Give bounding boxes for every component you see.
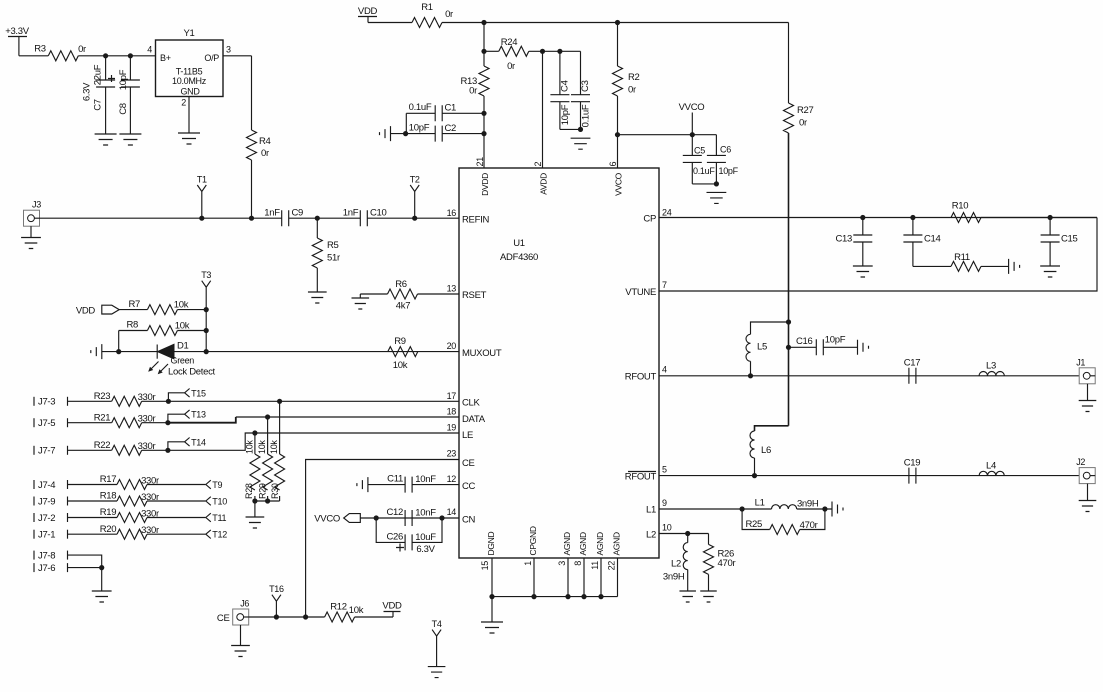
svg-text:24: 24 [662,208,672,218]
resistor R8 10k [147,326,177,336]
svg-text:U1: U1 [513,238,525,249]
node R30/CLK [277,399,282,404]
svg-text:CLK: CLK [462,398,481,409]
svg-text:5: 5 [662,465,667,475]
svg-text:6.3V: 6.3V [416,544,435,555]
svg-text:13: 13 [447,284,457,294]
wire AVDD down to pin 2 [542,51,544,168]
capacitor C3 0.1uF [580,51,582,94]
wire R19 to probe T11 [147,517,206,519]
resistor R6 4k7 [388,289,418,299]
connector J3 [24,210,40,226]
svg-text:GND: GND [180,87,200,97]
node VDD/R13 [481,20,486,25]
svg-text:VTUNE: VTUNE [625,287,656,298]
svg-text:6.3V: 6.3V [82,82,93,101]
svg-text:L2: L2 [646,530,656,541]
svg-text:T14: T14 [191,437,206,447]
svg-text:T1: T1 [197,175,207,185]
svg-text:R1: R1 [421,2,433,13]
test point T1 [199,216,204,221]
svg-text:R28: R28 [244,483,254,499]
svg-text:22uF: 22uF [93,64,104,85]
wire C10 to REFIN pin 16 [367,217,459,219]
ground (sideways, R11) [1009,259,1020,274]
svg-text:C12: C12 [386,507,403,518]
svg-text:T-11B5: T-11B5 [176,67,203,77]
resistor R13 0r [479,66,489,96]
svg-text:C17: C17 [904,358,921,369]
svg-text:3n9H: 3n9H [663,572,685,583]
connector J1 [1079,368,1095,384]
wire AGND pin 8 [583,558,585,597]
svg-text:AGND: AGND [595,532,605,556]
crystal oscillator Y1 T-11B5 10.0MHz [156,40,224,97]
capacitor C6 10pF [715,135,717,156]
capacitor C11 10nF [368,484,405,486]
svg-text:RFOUT: RFOUT [625,372,657,383]
svg-text:T11: T11 [212,513,226,523]
svg-text:10pF: 10pF [409,123,430,134]
ground J2 [1087,484,1089,501]
svg-text:C4: C4 [560,80,571,92]
wire L1 to ground [797,508,832,510]
svg-text:C3: C3 [580,80,591,92]
ground C7 [95,134,117,145]
svg-text:10nF: 10nF [415,474,436,485]
ground J7-8/J7-6 [92,591,112,602]
svg-text:B+: B+ [160,53,171,63]
wire elbow to L6 (thick) [755,426,789,431]
svg-text:Lock Detect: Lock Detect [168,367,216,378]
svg-text:C19: C19 [904,457,921,468]
svg-text:VVCO: VVCO [679,102,705,113]
svg-text:12: 12 [447,474,457,484]
svg-text:T4: T4 [432,619,442,629]
ground (sideways, D1 cathode) [91,344,102,359]
svg-text:2: 2 [533,162,543,167]
svg-text:10k: 10k [393,360,408,371]
resistor R23 330r [112,396,142,406]
svg-text:L1: L1 [755,498,765,509]
node C1 [481,111,486,116]
resistor R5 51r [316,218,318,238]
svg-text:CC: CC [462,481,476,492]
connector pin J7-5 [33,418,35,427]
svg-text:3n9H: 3n9H [797,499,819,510]
resistor R21 330r [112,418,142,428]
ground J3 [30,226,32,237]
wire CE pin 23 to J6 net [306,460,459,618]
svg-text:1nF: 1nF [343,208,359,219]
svg-text:470r: 470r [718,558,736,569]
svg-text:51r: 51r [327,253,340,264]
svg-text:18: 18 [447,407,457,417]
wire J7-5 to resistor [68,422,112,424]
node C15 [1048,215,1053,220]
node C16 [786,345,791,350]
resistor R18 330r [117,496,147,506]
capacitor C16 10pF [789,346,817,348]
svg-text:0r: 0r [799,118,807,129]
ground C13 [853,266,873,277]
node R24 left junction [481,49,486,54]
wire J7-4 to resistor [68,484,118,486]
resistor R1 0r [412,18,442,28]
svg-text:REFIN: REFIN [462,215,489,226]
wire CP pin 24 to loop filter [659,217,1097,219]
svg-text:0.1uF: 0.1uF [581,104,592,127]
capacitor C15 [1049,218,1051,236]
test point T16 [274,614,279,619]
connector pin J7-1 [33,530,35,539]
resistor R11 [951,261,981,271]
svg-text:J7-1: J7-1 [38,530,55,541]
node R8 elbow [116,349,121,354]
wire VDD rail R1 to R27 corner [442,22,789,24]
svg-text:VDD: VDD [76,306,96,317]
wire R3 to Y1 pin4 [78,55,155,57]
node CE vertical [303,614,308,619]
svg-text:20: 20 [447,341,457,351]
wire T14 to LE pin 19 [142,433,459,450]
svg-text:J7-6: J7-6 [38,563,55,574]
test point T13 [165,420,170,425]
ground J1 [1087,384,1089,401]
svg-text:0.1uF: 0.1uF [693,166,715,176]
svg-text:C9: C9 [292,208,304,219]
svg-text:T3: T3 [201,270,211,280]
ground (R6 left) [359,294,361,298]
ground J6 [240,625,242,646]
svg-text:14: 14 [447,507,457,517]
wire J7-3 to resistor [68,400,112,402]
node C2 [481,131,486,136]
svg-text:23: 23 [447,449,457,459]
svg-text:J2: J2 [1076,457,1085,467]
wire loop filter wrap to VTUNE pin 7 [659,218,1097,292]
svg-text:11: 11 [590,561,600,570]
svg-text:R29: R29 [258,483,268,499]
svg-text:C11: C11 [387,474,403,485]
svg-text:C1: C1 [445,103,457,114]
svg-text:7: 7 [662,280,667,290]
resistor R27 0r [784,103,794,133]
node AVDD [540,49,545,54]
test point T11 [206,513,211,522]
capacitor C1 0.1uF [406,112,435,114]
svg-text:0r: 0r [469,86,477,97]
svg-text:10uF: 10uF [415,532,436,543]
connector J2 [1079,468,1095,484]
svg-text:LE: LE [462,430,473,441]
svg-text:L6: L6 [761,445,771,456]
node C8 top [128,53,133,58]
svg-text:T12: T12 [212,530,227,540]
svg-text:DGND: DGND [486,532,496,556]
wire C9 to C10 [289,217,361,219]
capacitor C13 [862,218,864,236]
connector pin J7-4 [33,480,35,489]
capacitor C26 10uF 6.3V (polarised) [376,518,442,542]
svg-text:R6: R6 [395,279,407,290]
resistor R4 0r [247,130,257,160]
wire C14 to R11 [913,265,951,267]
wire R23 to CLK pin 17 [142,400,459,402]
capacitor C10 1nF [360,210,367,226]
resistor R12 10k [325,612,355,622]
svg-text:J7-5: J7-5 [38,418,55,429]
connector pin J7-8 [33,551,35,560]
svg-text:C10: C10 [370,208,387,219]
svg-text:10pF: 10pF [825,335,846,346]
wire J3 to C9 [40,217,282,219]
node C14 [910,215,915,220]
wire VDD rail corner down to R27 [788,23,790,104]
svg-text:R10: R10 [952,201,969,212]
wire AGND pin 3 [567,558,569,597]
resistor R10 [951,213,981,223]
svg-text:R30: R30 [270,483,280,499]
svg-text:6: 6 [608,162,618,167]
svg-text:4: 4 [662,365,667,375]
wire R8 to T3 [177,330,206,332]
svg-text:Y1: Y1 [183,28,194,39]
wire J7-6 to ground [68,567,102,569]
svg-text:VDD: VDD [382,601,402,612]
svg-text:VVCO: VVCO [614,172,624,196]
test point T14 [165,448,170,453]
svg-text:ADF4360: ADF4360 [500,252,538,263]
wire J7-9 to resistor [68,500,118,502]
svg-text:MUXOUT: MUXOUT [462,348,502,359]
capacitor C4 10pF [559,51,561,94]
capacitor C9 1nF [282,210,289,226]
wire bus to ground [491,597,493,622]
wire R10 to C15 [981,217,1097,219]
svg-text:VDD: VDD [358,6,378,17]
svg-text:R18: R18 [100,491,117,502]
svg-text:R22: R22 [94,440,111,451]
svg-text:L1: L1 [646,505,656,516]
node R5 top [315,216,320,221]
wire AGND pin 11 [600,558,602,597]
resistor R24 0r [484,50,499,52]
svg-text:+3.3V: +3.3V [5,26,30,37]
svg-text:T2: T2 [410,175,420,185]
inductor L5 [750,361,752,376]
resistor R22 330r [112,445,142,455]
svg-text:AGND: AGND [612,532,622,556]
connector pin J7-3 [33,397,35,406]
svg-text:R8: R8 [126,320,138,331]
svg-text:15: 15 [480,561,490,571]
svg-text:0r: 0r [78,44,86,55]
svg-text:C13: C13 [835,234,852,245]
svg-text:L4: L4 [986,460,996,471]
ground C5/C6 [707,192,727,203]
capacitor C7 22uF 6.3V [105,56,107,80]
node R8 right [204,328,209,333]
wire R6 to RSET pin 13 [418,293,460,295]
svg-text:J1: J1 [1076,357,1085,367]
svg-text:CPGND: CPGND [528,526,538,555]
capacitor C19 [909,468,916,484]
wire J7-1 to resistor [68,533,118,535]
connector pin J7-7 [33,446,35,455]
svg-text:C2: C2 [445,123,457,134]
svg-text:C8: C8 [118,103,129,115]
ground R26 [700,591,717,602]
LED arrows [151,362,169,373]
resistor R30 10k pulldown [279,401,281,454]
svg-text:R4: R4 [259,136,271,147]
wire pulldown bottoms joined [255,496,280,517]
svg-text:R5: R5 [327,240,339,251]
pin 2 of Y1 with wire to ground [188,97,190,134]
inductor L6 [754,430,756,432]
wire L2 pin 10 [659,533,709,535]
svg-text:3: 3 [557,561,567,566]
svg-text:8: 8 [573,561,583,566]
node R29/DATA [265,414,270,419]
svg-text:J7-9: J7-9 [38,496,55,507]
node VVCO rail [615,132,620,137]
ground T4 [428,667,446,678]
resistor R17 330r [117,480,147,490]
ground (sideways, C11) [357,477,368,492]
svg-text:470r: 470r [800,520,818,531]
svg-text:0.1uF: 0.1uF [409,102,432,113]
svg-text:CN: CN [462,515,476,526]
svg-text:10pF: 10pF [719,166,739,176]
wire L1 pin 9 [659,508,772,510]
svg-text:L3: L3 [986,361,996,372]
svg-text:17: 17 [447,391,457,401]
wire Y1 O/P to R4 [223,55,252,57]
svg-text:J7-2: J7-2 [38,513,55,524]
svg-text:AVDD: AVDD [539,173,549,195]
connector pin J7-6 [33,563,35,572]
node R4 bottom [249,216,254,221]
svg-text:CE: CE [217,613,230,624]
svg-text:DVDD: DVDD [480,173,490,196]
svg-text:1nF: 1nF [264,208,280,219]
svg-text:10k: 10k [269,440,279,454]
svg-text:10k: 10k [244,440,254,454]
svg-text:J7-7: J7-7 [38,446,55,457]
wire VDD tag to R7 [119,309,147,311]
wire J7-7 to resistor [68,449,112,451]
inductor L1 3n9H [772,505,797,509]
svg-text:R27: R27 [797,105,814,116]
ground (sideways) C2 [380,126,391,141]
ground C3/C4 [571,138,591,149]
svg-text:RSET: RSET [462,290,487,301]
svg-text:0r: 0r [445,9,453,20]
node C4 top [557,49,562,54]
wire R4 to REFIN net [251,160,253,218]
wire C4/C3 bottoms joined [560,128,581,130]
svg-text:R7: R7 [128,299,140,310]
node R7 right [204,307,209,312]
svg-text:J3: J3 [32,200,41,210]
wire ground bus [492,596,618,598]
ground R5 [308,292,327,303]
wire node down to R24 junction [483,23,485,52]
ground pulldowns [246,517,265,528]
ground (sideways, L1) [832,502,843,517]
inductor L4 [979,471,1004,475]
svg-text:0r: 0r [261,148,269,159]
capacitor C17 [909,368,916,384]
svg-text:C7: C7 [93,99,104,111]
svg-text:CP: CP [643,214,656,225]
ground IC [481,622,503,633]
svg-text:J6: J6 [240,599,249,609]
svg-text:C16: C16 [796,336,813,347]
wire AGND pin 22 [617,558,619,597]
ground Y1 [178,133,200,144]
svg-text:J7-8: J7-8 [38,550,55,561]
svg-text:C15: C15 [1061,234,1078,245]
svg-text:DATA: DATA [462,414,486,425]
svg-text:9: 9 [662,498,667,508]
svg-text:10k: 10k [174,300,189,311]
svg-text:4k7: 4k7 [396,301,410,312]
svg-text:T16: T16 [269,584,284,594]
ground C8 [119,134,141,145]
wire C5/C6 bottoms joined [692,183,716,185]
svg-text:AGND: AGND [562,532,572,556]
svg-text:10nF: 10nF [415,508,436,519]
connector J6 [233,609,249,625]
svg-text:R12: R12 [330,602,347,613]
svg-text:R9: R9 [394,336,406,347]
resistor R28 10k pulldown [254,433,256,454]
svg-text:22: 22 [607,561,617,571]
inductor L3 [979,371,1004,375]
svg-text:C5: C5 [694,146,705,156]
capacitor C5 0.1uF [691,135,693,156]
wire J7-2 to resistor [68,517,118,519]
inductor L2 3n9H [687,534,689,543]
svg-text:R25: R25 [745,519,762,530]
svg-text:C14: C14 [924,234,941,245]
svg-text:T13: T13 [191,410,206,420]
node C7 top [103,53,108,58]
test point T2 [412,216,417,221]
wire VVCO tag to CN pin 14 [360,517,459,519]
svg-text:10k: 10k [257,440,267,454]
svg-text:T10: T10 [212,497,227,507]
wire J7-8 to ground stem [68,555,102,568]
svg-text:J7-4: J7-4 [38,480,55,491]
svg-text:10.0MHz: 10.0MHz [172,76,207,86]
wire R7 to T3 [177,309,206,311]
test point T12 [206,530,211,539]
wire R18 to probe T10 [147,500,206,502]
capacitor C12 10nF [405,510,412,526]
wire D1 row [102,351,459,353]
svg-text:CE: CE [462,458,475,469]
resistor R3 [48,51,78,61]
ground C15 [1040,266,1060,277]
svg-text:T15: T15 [191,388,206,398]
test point T15 [166,399,171,404]
wire R2 to VVCO node / pin 6 [617,96,619,168]
resistor R25 470r [742,509,770,530]
